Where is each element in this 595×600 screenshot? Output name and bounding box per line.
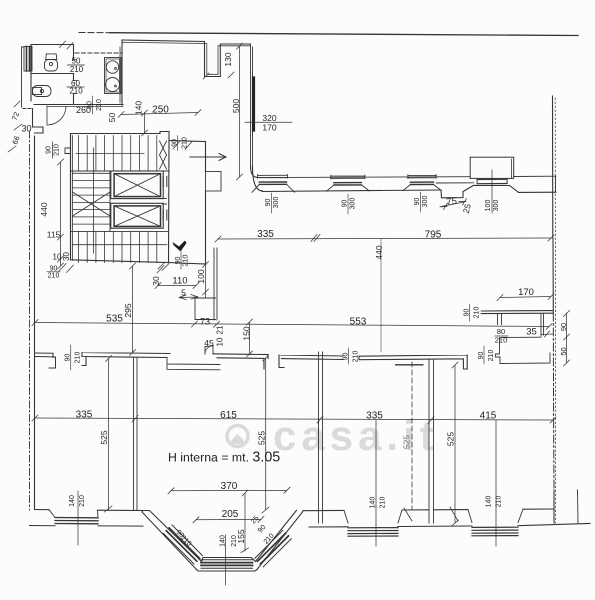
closet stub and 35 niche — [541, 314, 544, 336]
svg-text:90: 90 — [414, 198, 421, 206]
bathroom partition vertical with door gaps — [73, 45, 75, 105]
entrance arrow — [190, 154, 226, 161]
upper band south wall corner — [251, 166, 263, 191]
dim window W3 vertical — [495, 421, 497, 547]
svg-text:30: 30 — [151, 276, 161, 286]
svg-text:525: 525 — [445, 432, 455, 446]
svg-text:295: 295 — [123, 303, 133, 317]
svg-text:210: 210 — [70, 65, 84, 74]
svg-text:130: 130 — [223, 52, 233, 66]
svg-text:500: 500 — [231, 99, 241, 113]
stair section cut line — [92, 148, 94, 253]
middle wall segment C x359-467 — [359, 355, 467, 369]
stair upper flight risers — [79, 136, 157, 172]
elevator doors — [163, 176, 167, 220]
mid-wall door arc — [205, 346, 214, 355]
dim 525 vertical 3 — [452, 362, 459, 526]
svg-text:110: 110 — [172, 276, 187, 287]
entry closet 73 — [195, 298, 216, 320]
svg-text:50: 50 — [559, 347, 568, 355]
svg-text:300: 300 — [350, 198, 357, 210]
dim 170 line — [497, 294, 554, 301]
stair door ticks bottom right — [158, 262, 169, 271]
dim 35 line — [541, 331, 553, 337]
svg-text:615: 615 — [220, 410, 237, 421]
dim 130 ticks — [203, 72, 234, 79]
stair mid vertical — [109, 171, 111, 231]
dim 615/335/415 line — [35, 418, 553, 420]
bay bottom window band — [201, 560, 253, 568]
dim window W2 vertical — [375, 421, 377, 547]
partition 3 x429-434 (y357-523) — [429, 359, 434, 523]
west outer wall — [29, 131, 31, 510]
svg-text:320: 320 — [262, 113, 276, 123]
bathroom outer walls — [31, 45, 73, 102]
wall jamb ticks bottom — [404, 507, 458, 521]
middle wall segment B x213-268 — [213, 354, 268, 369]
window W2 (140/210) — [344, 510, 402, 523]
double sink unit — [105, 58, 122, 94]
svg-text:210: 210 — [495, 496, 502, 508]
bathroom entry door swing arc — [48, 107, 67, 126]
right side dim 90/50 vertical — [564, 311, 570, 367]
balcony box — [470, 157, 514, 178]
dim 250 line — [121, 113, 198, 115]
middle wall segment A x82-170 — [82, 353, 170, 366]
svg-text:21: 21 — [215, 325, 224, 334]
left outer wall line — [22, 47, 25, 107]
partition 1 x133-137 (y357-510) — [134, 358, 138, 510]
wall A west stub from west wall — [35, 353, 56, 368]
svg-text:210: 210 — [182, 255, 189, 267]
bottom wall left section (x34-143) — [35, 510, 144, 511]
entry east wall pair — [214, 248, 217, 320]
stair right column X — [160, 141, 167, 169]
bidet — [33, 86, 52, 97]
wall second line right of window3 — [436, 182, 473, 184]
elevator shaft 2 — [111, 203, 163, 228]
svg-text:210: 210 — [231, 535, 238, 547]
west wall upper step — [23, 108, 33, 110]
svg-text:210: 210 — [75, 352, 82, 364]
closet outline — [496, 337, 551, 363]
left entry column — [24, 47, 32, 72]
lower flight risers — [79, 231, 157, 262]
bay right diag window band — [255, 530, 291, 567]
svg-text:90: 90 — [559, 323, 568, 331]
window 2 (90/300) x331-365 — [326, 175, 369, 191]
fraction bars for rotated labels — [177, 136, 179, 151]
dim 140 vertical line — [142, 110, 148, 136]
svg-text:440: 440 — [374, 245, 384, 259]
dim line 100/300 vertical — [491, 170, 493, 213]
svg-text:210: 210 — [96, 99, 103, 111]
svg-text:440: 440 — [39, 202, 49, 216]
corridor east wall with pilaster — [205, 142, 207, 172]
top boundary line — [110, 33, 578, 36]
svg-text:210: 210 — [379, 497, 386, 509]
svg-text:50: 50 — [107, 113, 117, 123]
light well walls — [122, 40, 251, 77]
leader 320/170 — [245, 121, 292, 123]
svg-text:100: 100 — [485, 200, 492, 212]
corridor bottom walls — [169, 263, 207, 265]
dim 205 line — [193, 516, 264, 523]
svg-text:300: 300 — [493, 200, 500, 212]
svg-text:10: 10 — [53, 253, 62, 262]
svg-text:210: 210 — [181, 137, 188, 149]
watermark casa.it logo — [227, 412, 439, 459]
wall under window 4 — [474, 185, 557, 192]
svg-text:100: 100 — [196, 269, 206, 283]
svg-text:45: 45 — [204, 338, 214, 348]
dim 500 vertical line — [237, 43, 243, 180]
svg-text:210: 210 — [54, 144, 61, 156]
window 4 (100/300) x477-507 — [477, 179, 507, 183]
corridor north wall + door — [169, 141, 206, 142]
dim 100 vertical — [203, 262, 209, 298]
svg-text:210: 210 — [495, 336, 508, 345]
WC toilet — [45, 54, 58, 71]
svg-text:140: 140 — [69, 495, 76, 507]
svg-text:415: 415 — [480, 411, 497, 422]
dim 370 line — [168, 487, 290, 494]
svg-text:335: 335 — [366, 411, 383, 422]
upper-right room west wall — [251, 45, 253, 167]
elevator shaft 1 — [111, 171, 163, 199]
south wall bottom outer line — [262, 190, 441, 192]
south wall top inner line — [258, 176, 556, 177]
bathroom partition WC/bidet — [32, 73, 74, 75]
architrave line under wall C — [396, 364, 423, 366]
bay bottom outer — [197, 558, 258, 572]
dim 155 vertical — [241, 490, 249, 553]
door jamb ticks bathroom — [74, 60, 77, 94]
svg-text:170: 170 — [262, 123, 276, 133]
svg-text:210: 210 — [69, 87, 83, 96]
dashed projected wall x412 — [411, 362, 413, 510]
middle wall segment B2 x279-343 — [279, 355, 343, 368]
svg-text:335: 335 — [257, 229, 274, 240]
svg-text:H interna = mt. 3.05: H interna = mt. 3.05 — [168, 450, 280, 466]
svg-text:525: 525 — [402, 435, 412, 449]
svg-text:370: 370 — [221, 481, 238, 492]
svg-text:795: 795 — [425, 230, 442, 241]
stair block outer — [71, 132, 170, 263]
dim 795/335 line — [218, 238, 551, 239]
svg-text:335: 335 — [76, 410, 93, 421]
svg-text:553: 553 — [350, 317, 367, 328]
svg-text:205: 205 — [222, 509, 239, 520]
dim 535/553 long line — [35, 323, 549, 327]
bay right transition — [256, 510, 304, 569]
svg-text:170: 170 — [518, 287, 534, 298]
dim 295 vertical — [130, 263, 136, 356]
dim 440 vertical faint — [380, 239, 382, 352]
dim bay bottom window vertical — [225, 535, 227, 585]
upper-right small room wall y~312 — [481, 311, 553, 314]
svg-text:210: 210 — [79, 495, 86, 507]
dim 525 vertical 2 — [262, 355, 269, 513]
svg-text:300: 300 — [273, 197, 280, 209]
svg-text:210: 210 — [473, 307, 480, 319]
bay left transition — [142, 511, 202, 570]
stair upper landing line — [71, 170, 169, 172]
svg-text:35: 35 — [526, 327, 537, 338]
dim 525 vertical 1 — [105, 356, 113, 513]
svg-text:300: 300 — [422, 196, 429, 208]
dim 110 line — [155, 283, 199, 289]
svg-text:75: 75 — [446, 196, 458, 208]
svg-text:140: 140 — [485, 496, 492, 508]
svg-text:5: 5 — [181, 288, 186, 298]
svg-text:535: 535 — [106, 314, 123, 325]
under-stair X cross — [73, 192, 111, 216]
svg-text:90: 90 — [342, 200, 349, 208]
door stub 80/210 — [498, 314, 502, 325]
black door arrow — [173, 241, 187, 252]
window 1 (90/300) x259-291 — [252, 174, 295, 192]
door jamb 45/10 — [205, 346, 213, 354]
dim 5 line — [179, 295, 198, 300]
partition 2 x318-323 (y352-523) — [319, 352, 323, 523]
svg-text:10: 10 — [216, 337, 225, 346]
dim window W1 vertical — [77, 491, 79, 545]
svg-text:30: 30 — [62, 252, 71, 261]
svg-text:73: 73 — [200, 317, 210, 327]
dim 150 vertical — [247, 319, 253, 357]
door sill band below A-B junction — [167, 358, 220, 370]
right outer wall — [552, 96, 555, 313]
svg-text:30: 30 — [21, 124, 31, 134]
window W1 (140/210) trapezoid + sill — [49, 510, 98, 518]
svg-text:210: 210 — [488, 350, 495, 362]
bay left diag window band — [164, 525, 203, 564]
svg-text:140: 140 — [134, 101, 144, 115]
75 notch in wall — [441, 185, 474, 197]
east boundary wall x578 — [577, 490, 580, 524]
svg-text:210: 210 — [48, 273, 60, 280]
svg-text:90: 90 — [46, 146, 53, 154]
svg-text:90: 90 — [265, 199, 272, 207]
svg-text:140: 140 — [219, 535, 226, 547]
svg-text:210: 210 — [352, 351, 359, 363]
svg-text:115: 115 — [47, 230, 61, 240]
window 3 (90/300) x408-436 — [403, 175, 441, 191]
corridor door ticks — [59, 141, 192, 273]
window W3 (140/210) — [468, 509, 523, 522]
dim 440/115/10 vertical left — [58, 159, 64, 269]
west wall slashes 72/66 — [8, 101, 22, 152]
svg-text:525: 525 — [99, 430, 109, 444]
side flight treads — [73, 173, 111, 224]
bathroom top wall ticks — [60, 41, 74, 49]
svg-text:250: 250 — [152, 105, 169, 116]
bottom wall right of bay — [303, 509, 554, 511]
party wall black fill — [252, 78, 255, 130]
dim 75 line with arrows — [440, 199, 467, 210]
svg-text:150: 150 — [241, 326, 251, 340]
svg-text:90: 90 — [50, 266, 58, 273]
svg-text:140: 140 — [369, 497, 376, 509]
svg-text:525: 525 — [256, 431, 266, 445]
